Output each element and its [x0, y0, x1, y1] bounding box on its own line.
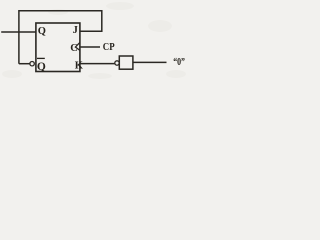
svg-text:Q: Q [37, 61, 46, 73]
wire: Q-bar pin to feedback corner [19, 63, 30, 65]
flip-flop box U1 [36, 23, 80, 72]
wire: Q output to left edge [1, 31, 36, 33]
svg-text:“0”: “0” [173, 57, 185, 68]
wire: inverter output [133, 61, 167, 63]
scan mottling [2, 2, 186, 79]
svg-text:Q: Q [38, 26, 46, 37]
bubble on Q-bar output [30, 62, 34, 66]
overbar of Q-bar [37, 57, 45, 59]
bubble on inverter box input [115, 61, 119, 65]
svg-text:K: K [75, 60, 84, 71]
svg-text:J: J [73, 25, 78, 36]
clock edge triangle on C input [75, 42, 80, 50]
inverter box U2 [119, 56, 133, 69]
wire: K input to inverter bubble [80, 63, 115, 65]
svg-text:CP: CP [103, 42, 115, 53]
wire: C input to CP [80, 46, 100, 48]
wire: feedback loop from Q-bar over the top to J input [19, 11, 102, 64]
background [0, 0, 191, 82]
